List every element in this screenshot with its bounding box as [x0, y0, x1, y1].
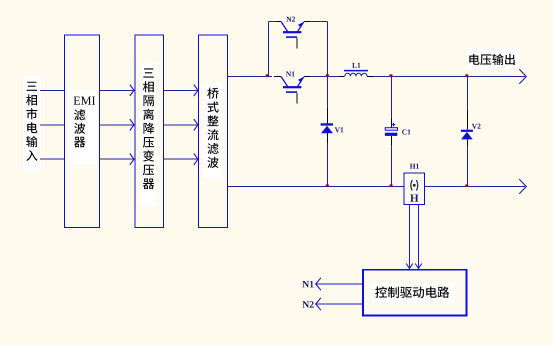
- wire transformer to rectifier phase B with arrowhead: [163, 119, 198, 130]
- label 三相隔离降压变压器: [140, 62, 157, 206]
- wire transformer to rectifier phase A with arrowhead: [163, 85, 198, 96]
- node junction V2 bottom on negative rail: [465, 184, 468, 187]
- label C1: [402, 129, 410, 134]
- transistor N2 (IGBT): [281, 22, 304, 49]
- label 电压输出 (voltage output): [467, 48, 519, 69]
- label V2: [472, 124, 481, 129]
- wire control output to N1 gate (arrow left): [316, 278, 363, 290]
- diode V1 (freewheeling, cathode up): [321, 123, 333, 133]
- capacitor C1 (electrolytic, + up): [385, 123, 398, 136]
- wire positive rail from rectifier to output: [228, 76, 526, 78]
- wire negative rail from rectifier to output: [228, 186, 526, 188]
- inductor L1: [339, 71, 374, 77]
- wire output arrowhead negative rail: [519, 179, 526, 193]
- transistor N1 (IGBT): [281, 77, 304, 104]
- wire V2 branch vertical: [467, 77, 469, 187]
- label EMI滤波器: [70, 90, 98, 165]
- wire H1 to control circuit (right, arrow down): [415, 205, 422, 269]
- wire EMI filter to transformer phase C with arrowhead: [100, 154, 135, 165]
- current sensor H1 (hall element): [404, 173, 425, 205]
- wire output arrowhead positive rail: [519, 69, 526, 83]
- label 控制驱动电路: [372, 283, 455, 303]
- wire input phase C: [40, 158, 64, 160]
- label N2 control output: [302, 301, 313, 307]
- wire C1 branch bottom: [391, 136, 393, 187]
- label H1: [410, 164, 419, 169]
- node junction C1 top on positive rail: [390, 74, 393, 77]
- wire EMI filter to transformer phase A with arrowhead: [100, 85, 135, 96]
- wire H1 to control circuit (left, arrow down): [406, 205, 413, 269]
- label input text 三相市电输入 (three-phase mains input): [23, 76, 41, 171]
- label N1 control output: [302, 281, 313, 287]
- block T1: three-phase isolation step-down transformer (三相隔离降压变压器): [135, 35, 163, 228]
- label L1: [352, 63, 360, 68]
- label N2: [286, 17, 295, 22]
- block control drive circuit (控制驱动电路): [363, 270, 467, 316]
- wire N2 branch left vertical: [268, 22, 270, 77]
- label N1: [286, 71, 295, 76]
- wire input phase A: [40, 89, 64, 91]
- wire C1 branch top: [391, 77, 393, 128]
- node junction N2-right / V1 tap on positive rail: [326, 74, 329, 77]
- wire transformer to rectifier phase C with arrowhead: [163, 154, 198, 165]
- wire control output to N2 gate (arrow left): [316, 298, 363, 310]
- node junction V1 bottom on negative rail: [326, 184, 329, 187]
- label V1: [335, 127, 344, 132]
- wire V1 branch vertical: [327, 77, 329, 187]
- node junction V2 top on positive rail: [465, 74, 468, 77]
- block U-RECT: bridge rectifier and filter (桥式整流滤波): [199, 35, 228, 228]
- label 桥式整流滤波: [203, 83, 222, 178]
- wire N2 top rail: [269, 21, 328, 23]
- block U-EMI: EMI filter (EMI滤波器): [64, 35, 99, 228]
- wire N2 branch right vertical: [327, 22, 329, 77]
- node junction N2-left on positive rail: [266, 74, 269, 77]
- node junction C1 bottom on negative rail: [390, 184, 393, 187]
- diode V2 (cathode up): [461, 130, 473, 140]
- wire EMI filter to transformer phase B with arrowhead: [100, 119, 135, 130]
- wire input phase B: [40, 124, 64, 126]
